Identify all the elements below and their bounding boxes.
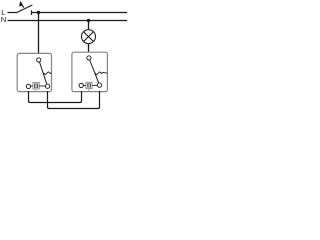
switch 2 blade bbox=[90, 60, 99, 83]
switch S0 actuation arrow bbox=[19, 1, 23, 7]
switch 2 spring bbox=[95, 72, 107, 75]
wire L bus bbox=[32, 12, 128, 14]
wire traveler 2 bbox=[48, 91, 100, 109]
wire terminal to clamp bbox=[31, 85, 33, 87]
wire clamp to terminal right bbox=[39, 85, 45, 87]
wire terminal to clamp bbox=[84, 84, 86, 86]
node L junction bbox=[37, 11, 40, 14]
switch 1 terminal left bbox=[26, 84, 30, 88]
switch S0 arrow stem bbox=[22, 5, 24, 7]
switch S0 fixed contact bbox=[31, 10, 33, 15]
switch 2 terminal left bbox=[79, 83, 83, 87]
clamp stem switch 1 bbox=[35, 89, 37, 91]
clamp stem switch 2 bbox=[88, 89, 90, 92]
switch box 1 outline bbox=[17, 53, 51, 91]
node N junction bbox=[87, 19, 90, 22]
clamp block switch 1 bbox=[33, 83, 39, 89]
switch 2 terminal right bbox=[97, 83, 101, 87]
background bbox=[0, 0, 130, 111]
switch 1 common terminal bbox=[37, 58, 41, 62]
switch box 2 outline bbox=[72, 52, 108, 91]
clamp block switch 2 bbox=[86, 82, 92, 88]
wire N bus bbox=[8, 20, 128, 22]
switch 1 terminal right bbox=[45, 84, 49, 88]
wire L lead-in bbox=[8, 12, 17, 14]
switch 1 spring bbox=[44, 72, 52, 75]
wire lamp to switch 2 bbox=[88, 44, 90, 53]
switch S0 blade bbox=[17, 5, 32, 13]
wire N drop to lamp bbox=[88, 21, 90, 30]
switch 2 common terminal bbox=[87, 56, 91, 60]
lamp E1 bbox=[82, 30, 96, 44]
wire traveler 1 bbox=[29, 91, 82, 103]
wire L drop to switch 1 bbox=[38, 13, 40, 55]
wire clamp to terminal right bbox=[92, 84, 97, 86]
svg-text:N: N bbox=[1, 15, 6, 24]
switch 1 blade bbox=[40, 62, 47, 84]
